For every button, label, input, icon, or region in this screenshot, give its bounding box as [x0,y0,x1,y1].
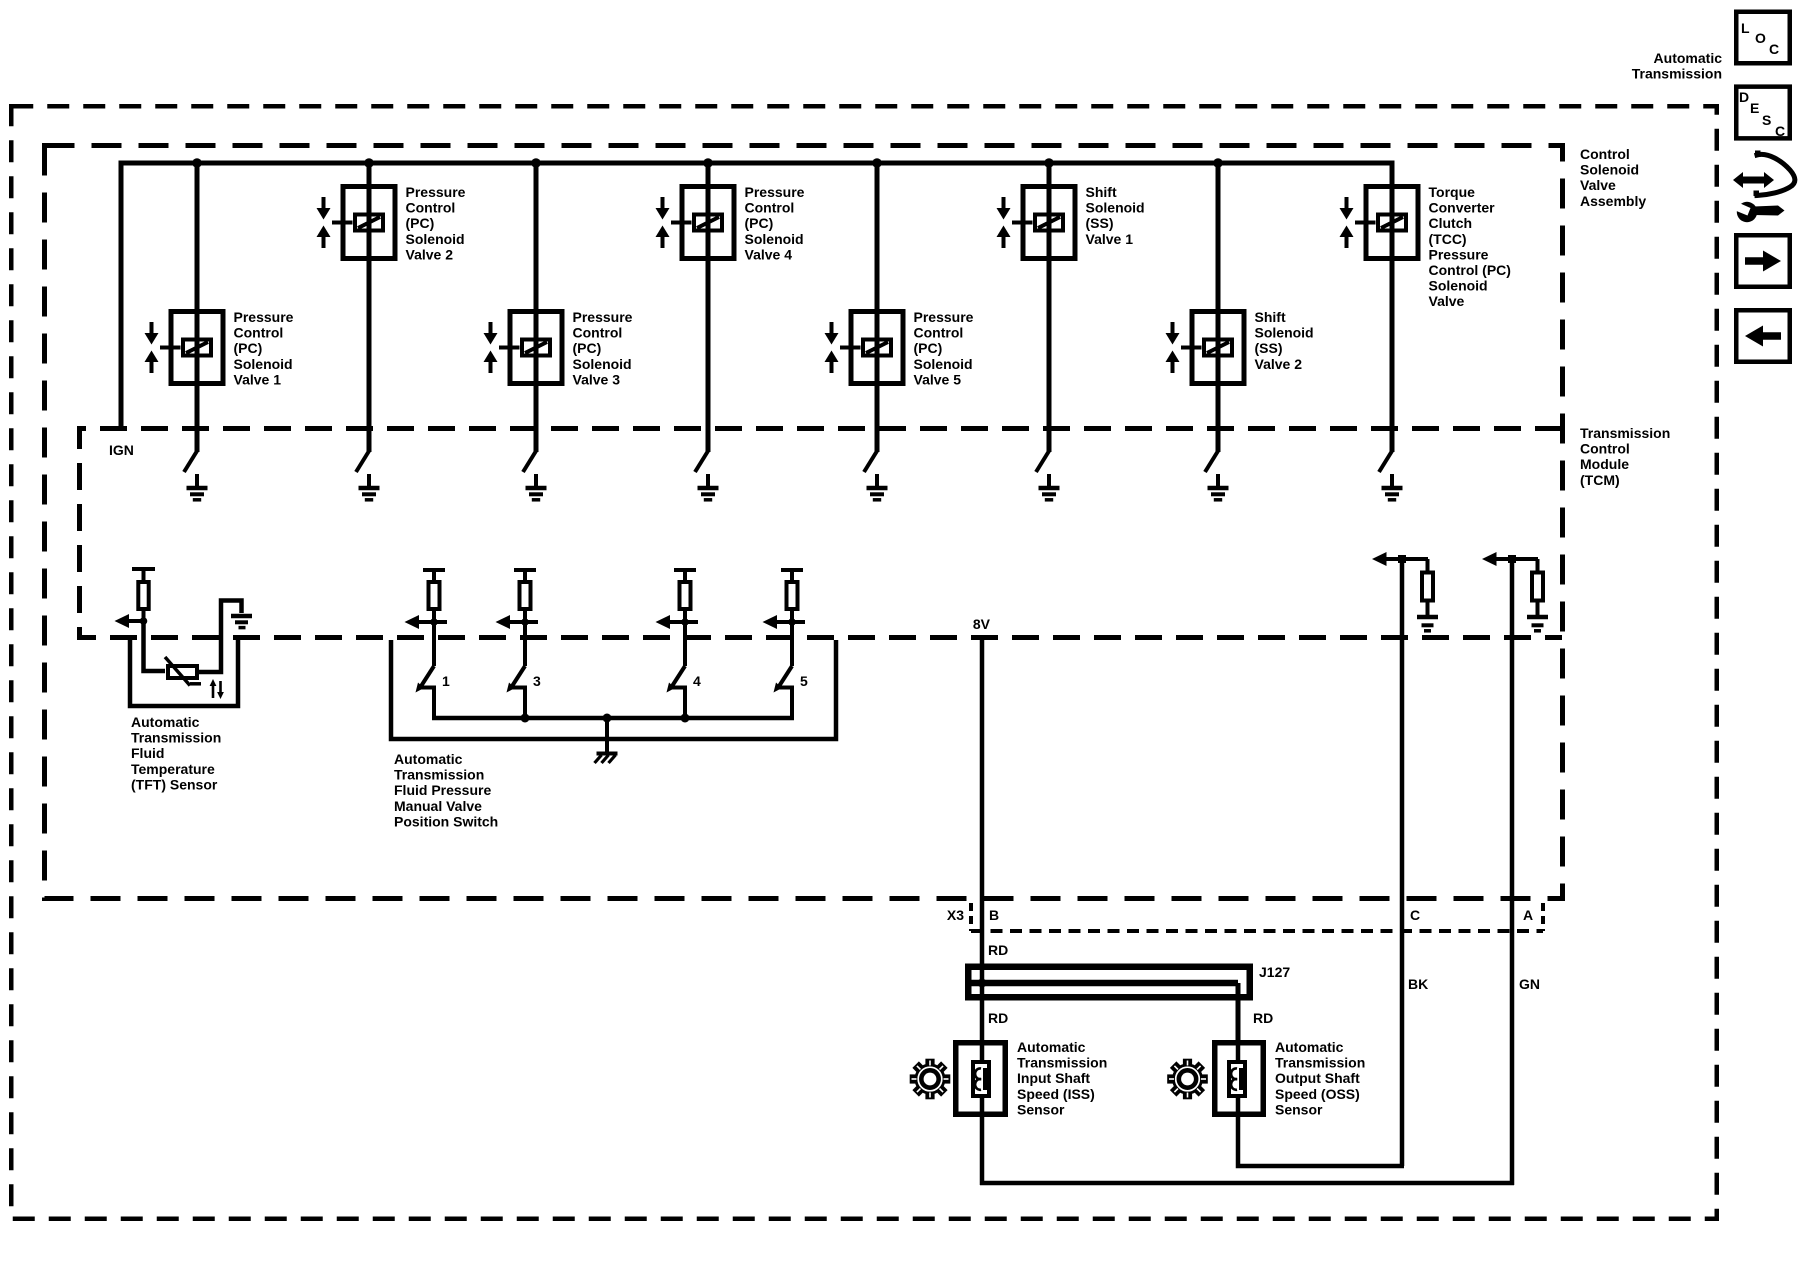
icon box arrow left [1736,310,1790,362]
pressure switch enclosure [391,640,836,739]
thermistor: TFT sensing element [165,657,201,686]
svg-text:Solenoid: Solenoid [1086,200,1145,216]
solenoid valve PC Solenoid Valve 2 [317,163,396,452]
gear icon (ISS) [910,1059,951,1100]
junction dot ground tap [603,714,612,723]
svg-text:Module: Module [1580,456,1629,472]
TCM driver switch for tcc [1379,451,1392,472]
wire: ISS sensor element to low side [980,1096,985,1185]
wire: J127 to OSS sensor element [1236,1038,1241,1062]
Automatic Transmission Output Shaft Speed (OSS) sensor body [1215,1043,1264,1115]
pressure switch channel 4: pull-up resistor [674,570,696,666]
svg-text:5: 5 [800,673,808,689]
svg-text:Assembly: Assembly [1580,193,1646,209]
pressure switch channel 1: signal arrow [405,615,448,629]
svg-text:Control: Control [745,200,795,216]
svg-text:BK: BK [1408,976,1428,992]
TCM driver switch for v1 [184,451,197,472]
TCM driver switch for ss1 [1036,451,1049,472]
ground under ss1 driver [1039,474,1060,500]
svg-text:X3: X3 [947,907,964,923]
svg-text:E: E [1750,100,1759,116]
svg-text:Solenoid: Solenoid [745,231,804,247]
switch contact 5 [774,666,793,720]
svg-text:Transmission: Transmission [1017,1055,1107,1071]
svg-text:(PC): (PC) [234,340,263,356]
svg-text:Fluid Pressure: Fluid Pressure [394,782,491,798]
svg-text:(PC): (PC) [406,215,435,231]
TCM driver switch for v3 [523,451,536,472]
TCM driver switch for v4 [695,451,708,472]
svg-text:Automatic: Automatic [1654,50,1723,66]
chassis ground symbol [595,754,618,764]
icon box LOC [1736,12,1790,64]
gear icon (OSS) [1167,1059,1208,1100]
TCM speed signal arrow (ISS, pin A) [1482,552,1538,566]
connector X3 left end tick [969,903,973,931]
svg-text:Transmission: Transmission [1580,425,1670,441]
wire: IGN feed from TCM up to solenoid supply bus [119,163,124,428]
svg-text:Valve: Valve [1429,293,1465,309]
svg-text:RD: RD [988,942,1008,958]
svg-text:Valve: Valve [1580,177,1616,193]
svg-text:Pressure: Pressure [914,309,974,325]
dashed box: Control Solenoid Valve Assembly [45,146,1563,899]
svg-text:(TFT) Sensor: (TFT) Sensor [131,776,218,792]
pressure switch channel 5: signal arrow [763,615,806,629]
svg-text:Control (PC): Control (PC) [1429,262,1511,278]
svg-text:Automatic: Automatic [131,714,200,730]
svg-text:8V: 8V [973,616,991,632]
svg-text:(PC): (PC) [914,340,943,356]
icon box DESC [1736,87,1790,139]
svg-text:Solenoid: Solenoid [1429,278,1488,294]
TFT sensor enclosure [130,640,238,706]
wire: common bus to chassis ground [605,718,609,753]
svg-text:Transmission: Transmission [1275,1055,1365,1071]
wire: TFT signal down to sensor [144,621,166,671]
bias resistor to ground (ISS, pin A) [1532,559,1543,615]
svg-text:Solenoid: Solenoid [1580,162,1639,178]
svg-text:Clutch: Clutch [1429,215,1473,231]
solenoid valve PC Solenoid Valve 3 [484,163,563,452]
svg-text:Sensor: Sensor [1017,1101,1065,1117]
svg-text:L: L [1741,20,1750,36]
svg-text:Solenoid: Solenoid [406,231,465,247]
svg-text:(TCM): (TCM) [1580,472,1620,488]
svg-text:Automatic: Automatic [394,751,463,767]
ground under v2 driver [359,474,380,500]
svg-text:Valve 2: Valve 2 [1255,356,1303,372]
svg-text:(TCC): (TCC) [1429,231,1467,247]
ground under bias resistor (OSS, pin C) [1417,617,1438,631]
svg-text:Transmission: Transmission [394,767,484,783]
svg-text:Input Shaft: Input Shaft [1017,1070,1090,1086]
TCM driver switch for v2 [356,451,369,472]
svg-text:Control: Control [1580,441,1630,457]
svg-text:Automatic: Automatic [1017,1039,1086,1055]
svg-text:Solenoid: Solenoid [1255,325,1314,341]
svg-text:B: B [989,907,999,923]
svg-text:D: D [1739,89,1749,105]
svg-text:1: 1 [442,673,450,689]
svg-text:Sensor: Sensor [1275,1101,1323,1117]
dashed box: Transmission Control Module (TCM) [80,429,1563,638]
ground under tcc driver [1382,474,1403,500]
Automatic Transmission Input Shaft Speed (ISS) sensor body [956,1043,1006,1115]
TFT pull-up resistor in TCM [132,569,155,623]
solenoid valve PC Solenoid Valve 1 [145,163,224,452]
svg-text:Speed (OSS): Speed (OSS) [1275,1086,1360,1102]
svg-text:Manual Valve: Manual Valve [394,798,482,814]
svg-text:C: C [1775,123,1785,139]
wire: OSS sensor low side to BK [1238,1096,1404,1166]
icon: two-way arrow with pointer and wrench [1732,151,1795,223]
svg-text:RD: RD [1253,1010,1273,1026]
svg-text:(PC): (PC) [573,340,602,356]
svg-text:Control: Control [573,325,623,341]
svg-text:Valve 3: Valve 3 [573,371,621,387]
TCM driver switch for v5 [864,451,877,472]
TCM driver switch for ss2 [1205,451,1218,472]
svg-text:Pressure: Pressure [234,309,294,325]
switch contact 3 [507,666,526,720]
svg-text:C: C [1769,41,1779,57]
svg-text:Position Switch: Position Switch [394,813,498,829]
svg-text:Pressure: Pressure [1429,246,1489,262]
svg-text:4: 4 [693,673,701,689]
solenoid valve Shift Solenoid Valve 1 [997,163,1076,452]
svg-text:S: S [1762,112,1771,128]
wire: ISS return GN from TCM pin A down [1510,559,1515,1185]
svg-text:Output Shaft: Output Shaft [1275,1070,1360,1086]
svg-text:GN: GN [1519,976,1540,992]
ground: TFT return inside TCM [231,616,252,628]
ground under ss2 driver [1208,474,1229,500]
pressure switch channel 1: pull-up resistor [423,570,445,666]
TCM speed signal arrow (OSS, pin C) [1372,552,1428,566]
svg-text:Converter: Converter [1429,200,1496,216]
ground under v3 driver [526,474,547,500]
svg-text:(PC): (PC) [745,215,774,231]
icon box arrow right [1736,235,1790,287]
junction dots on supply bus [192,158,202,168]
switch contact 4 [667,666,686,720]
svg-text:Solenoid: Solenoid [573,356,632,372]
svg-text:Valve 1: Valve 1 [234,371,282,387]
svg-text:Control: Control [914,325,964,341]
wire: pressure switch common bus [432,716,794,721]
solenoid valve Shift Solenoid Valve 2 [1166,163,1245,452]
svg-text:Temperature: Temperature [131,761,215,777]
svg-text:C: C [1410,907,1420,923]
svg-text:Speed (ISS): Speed (ISS) [1017,1086,1095,1102]
svg-text:Transmission: Transmission [1632,66,1722,82]
connector X3 dashed line [971,929,1543,933]
svg-text:A: A [1523,907,1533,923]
ground under bias resistor (ISS, pin A) [1527,617,1548,631]
pressure switch channel 3: signal arrow [496,615,539,629]
solenoid valve PC Solenoid Valve 5 [825,163,904,452]
junction dots on switch common bus [521,714,530,723]
svg-text:3: 3 [533,673,541,689]
svg-text:(SS): (SS) [1086,215,1114,231]
pressure switch channel 3: pull-up resistor [514,570,536,666]
wire: OSS signal BK from TCM pin C down [1400,559,1405,1166]
svg-text:Shift: Shift [1255,309,1286,325]
TFT signal arrow (input to TCM) [115,614,148,628]
svg-text:Automatic: Automatic [1275,1039,1344,1055]
svg-text:Control: Control [234,325,284,341]
solenoid valve TCC PC Solenoid Valve [1340,163,1419,452]
solenoid valve PC Solenoid Valve 4 [656,163,735,452]
splice pack J127 [968,967,1250,1040]
svg-text:Valve 2: Valve 2 [406,246,454,262]
svg-text:Transmission: Transmission [131,730,221,746]
wire: top supply bus [119,161,1395,166]
svg-text:Torque: Torque [1429,184,1476,200]
wire: 8V reference from TCM down through X3-B to J127 and ISS sensor [980,640,985,1062]
wire: TFT sensor return to TCM ground [198,601,242,673]
svg-text:(SS): (SS) [1255,340,1283,356]
wire: ISS sensor low side to GN [980,1181,1514,1186]
svg-text:Valve 4: Valve 4 [745,246,793,262]
svg-text:Fluid: Fluid [131,745,164,761]
switch contact 1 [416,666,435,720]
svg-text:Valve 5: Valve 5 [914,371,962,387]
svg-text:Valve 1: Valve 1 [1086,231,1134,247]
svg-text:RD: RD [988,1010,1008,1026]
svg-text:J127: J127 [1259,964,1290,980]
svg-text:Solenoid: Solenoid [914,356,973,372]
svg-text:Pressure: Pressure [745,184,805,200]
svg-text:IGN: IGN [109,442,134,458]
ground under v1 driver [187,474,208,500]
svg-text:Shift: Shift [1086,184,1117,200]
svg-text:Pressure: Pressure [406,184,466,200]
up/down arrows inside TFT sensor [210,679,224,699]
bias resistor to ground (OSS, pin C) [1422,559,1433,615]
svg-text:Control: Control [406,200,456,216]
connector X3 right end tick [1541,903,1545,931]
svg-text:O: O [1755,30,1766,46]
ground under v5 driver [867,474,888,500]
svg-text:Control: Control [1580,146,1630,162]
pressure switch channel 5: pull-up resistor [781,570,803,666]
svg-text:Solenoid: Solenoid [234,356,293,372]
pressure switch channel 4: signal arrow [656,615,699,629]
svg-text:Pressure: Pressure [573,309,633,325]
ground under v4 driver [698,474,719,500]
